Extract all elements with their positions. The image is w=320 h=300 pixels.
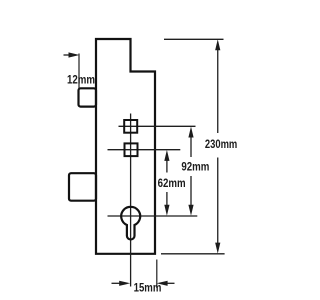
svg-text:12mm: 12mm	[67, 74, 95, 87]
lock case outline	[96, 39, 155, 254]
euro cylinder cutout	[121, 207, 140, 240]
15mm left arrow	[112, 282, 123, 284]
svg-text:62mm: 62mm	[158, 177, 186, 190]
vertical centre line	[130, 114, 132, 287]
15mm right arrow	[165, 282, 175, 284]
62mm dimension line with arrows	[166, 157, 168, 173]
horizontal centre line lower spindle (62mm extension)	[108, 149, 181, 151]
svg-text:230mm: 230mm	[205, 138, 237, 151]
92mm dimension line with arrows	[190, 133, 192, 157]
lower deadbolt protrusion	[69, 173, 96, 201]
upper latch protrusion	[79, 88, 97, 106]
horizontal centre line upper spindle (92mm extension)	[119, 125, 196, 127]
12mm extension line	[78, 54, 80, 89]
horizontal centre line cylinder (dimension base line)	[108, 215, 198, 217]
lower spindle square hole	[125, 143, 138, 156]
230mm top extension line	[164, 38, 224, 40]
230mm dimension line with arrows	[217, 46, 219, 133]
svg-text:92mm: 92mm	[181, 161, 209, 174]
12mm leader arrow	[64, 54, 73, 56]
upper spindle square hole	[124, 120, 137, 133]
svg-text:15mm: 15mm	[134, 282, 162, 295]
230mm bottom extension line	[161, 253, 225, 255]
15mm right extension line	[156, 260, 158, 289]
